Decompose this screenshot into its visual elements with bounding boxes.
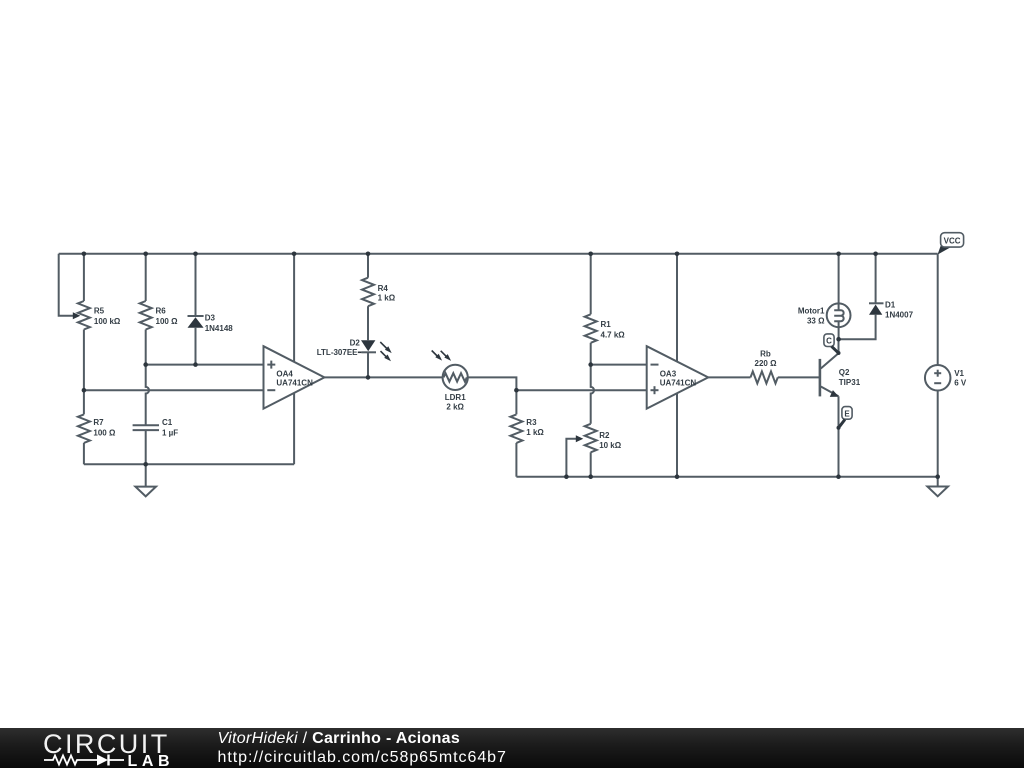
- svg-text:1N4148: 1N4148: [205, 324, 234, 333]
- svg-text:100 Ω: 100 Ω: [93, 428, 116, 437]
- wire OA4 output: [324, 376, 442, 378]
- svg-text:1 kΩ: 1 kΩ: [378, 293, 396, 302]
- wire OA4 power rails: [293, 254, 295, 464]
- svg-text:4.7 kΩ: 4.7 kΩ: [601, 330, 626, 339]
- svg-text:VCC: VCC: [944, 236, 961, 245]
- svg-text:D3: D3: [205, 314, 216, 323]
- svg-text:V1: V1: [954, 369, 964, 378]
- svg-text:R4: R4: [378, 284, 389, 293]
- resistor R5 (pot body): [83, 254, 85, 301]
- svg-text:R6: R6: [156, 307, 167, 316]
- motor Motor1 33ohm: [838, 254, 840, 310]
- wire top rail VCC: [59, 253, 938, 255]
- svg-text:E: E: [844, 409, 850, 418]
- photoresistor LDR1: [443, 365, 468, 390]
- svg-text:10 kΩ: 10 kΩ: [599, 441, 622, 450]
- wire collector node to D1: [839, 315, 876, 340]
- svg-text:LTL-307EE: LTL-307EE: [317, 348, 358, 357]
- footer url: [218, 749, 507, 767]
- resistor R4: [367, 254, 369, 278]
- svg-text:33 Ω: 33 Ω: [807, 316, 825, 325]
- svg-text:LDR1: LDR1: [445, 393, 466, 402]
- wire R1 to R2 with hop over plus wire: [591, 365, 594, 424]
- svg-text:R3: R3: [526, 418, 537, 427]
- wire LDR1 to R3 / OA3 plus: [468, 377, 517, 414]
- svg-text:D1: D1: [885, 300, 896, 309]
- wire OA4 inverting input: [84, 389, 264, 391]
- svg-text:2 kΩ: 2 kΩ: [446, 403, 464, 412]
- svg-text:1 kΩ: 1 kΩ: [526, 428, 544, 437]
- LDR1 light arrows: [432, 351, 438, 357]
- footer bar: [0, 728, 1024, 768]
- svg-text:TIP31: TIP31: [839, 378, 861, 387]
- svg-text:1 µF: 1 µF: [162, 428, 178, 437]
- wire Rb to Q2 base: [778, 376, 819, 378]
- wire bottom rail left: [84, 463, 294, 465]
- diode D1 1N4007: [875, 254, 877, 303]
- resistor R7: [83, 390, 85, 414]
- svg-text:100 Ω: 100 Ω: [156, 317, 179, 326]
- diode D3 1N4148: [195, 254, 197, 316]
- resistor R3: [510, 414, 522, 443]
- svg-text:C: C: [826, 337, 832, 346]
- wire OA4 noninverting input: [146, 364, 264, 366]
- svg-text:C1: C1: [162, 418, 173, 427]
- wire OA3 noninverting input: [516, 389, 646, 391]
- svg-text:OA3: OA3: [660, 369, 677, 378]
- svg-text:6 V: 6 V: [954, 379, 967, 388]
- svg-text:UA741CN: UA741CN: [660, 378, 697, 387]
- ground symbol left: [145, 464, 147, 486]
- svg-text:OA4: OA4: [276, 369, 293, 378]
- svg-text:R7: R7: [93, 418, 104, 427]
- op-amp OA3 UA741CN: [647, 346, 709, 408]
- wire OA3 power rails: [676, 254, 678, 477]
- footer title: [218, 730, 461, 748]
- svg-text:220 Ω: 220 Ω: [755, 359, 778, 368]
- net flag VCC: [938, 246, 951, 255]
- svg-text:D2: D2: [350, 339, 361, 348]
- voltage source V1 6V: [937, 254, 939, 365]
- CircuitLab logo LAB: [128, 753, 175, 771]
- wire R5 wiper from top rail: [59, 254, 74, 316]
- capacitor C1: [133, 424, 159, 426]
- wire C1 branch with hop over minus wire: [146, 365, 149, 426]
- svg-text:1N4007: 1N4007: [885, 311, 914, 320]
- LED D2 LTL-307EE: [361, 340, 375, 351]
- svg-text:100 kΩ: 100 kΩ: [94, 317, 121, 326]
- R2 wiper wire: [566, 439, 576, 477]
- svg-text:R1: R1: [601, 320, 612, 329]
- emitter E pin bubble: [842, 407, 852, 420]
- resistor R6: [145, 254, 147, 301]
- svg-text:Rb: Rb: [760, 350, 771, 359]
- resistor Rb 220: [751, 371, 778, 383]
- svg-text:Q2: Q2: [839, 368, 850, 377]
- junction dots: [82, 252, 87, 257]
- CircuitLab logo CIRCUIT: [43, 729, 170, 760]
- ground symbol right: [937, 477, 939, 487]
- wire OA3 inverting input: [591, 364, 647, 366]
- transistor Q2 TIP31: [819, 359, 822, 397]
- wire OA3 output: [708, 376, 750, 378]
- D2 emission arrows: [380, 342, 387, 349]
- svg-text:UA741CN: UA741CN: [276, 378, 313, 387]
- svg-text:Motor1: Motor1: [798, 306, 825, 315]
- svg-text:R2: R2: [599, 431, 610, 440]
- resistor R2 (pot body): [585, 424, 597, 453]
- collector C pin bubble: [824, 334, 834, 347]
- svg-text:R5: R5: [94, 307, 105, 316]
- wire bottom rail right: [516, 476, 937, 478]
- R2 wiper arrow: [576, 435, 584, 442]
- R5 wiper arrow: [73, 312, 81, 319]
- resistor R1: [590, 254, 592, 314]
- logo resistor-diode glyph: [44, 753, 128, 767]
- op-amp OA4 UA741CN: [264, 346, 325, 408]
